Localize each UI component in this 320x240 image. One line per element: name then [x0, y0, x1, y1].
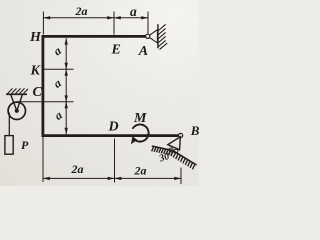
- wall hatching at A: [158, 24, 167, 49]
- moment arrowhead: [131, 136, 137, 144]
- top dimension extension line at A: [147, 12, 149, 34]
- roller 1 at B: [169, 148, 173, 152]
- svg-text:P: P: [21, 138, 29, 152]
- svg-text:2a: 2a: [75, 4, 88, 18]
- weight P box: [5, 136, 13, 155]
- tick at K level: [43, 68, 74, 70]
- pulley hub: [15, 109, 19, 113]
- pin B circle: [179, 133, 183, 137]
- pin A circle: [146, 34, 150, 38]
- ceiling bracket line (pulley support): [6, 93, 27, 95]
- svg-text:E: E: [111, 43, 121, 58]
- roller 2 at B: [174, 149, 178, 153]
- incline hatching: [152, 146, 195, 169]
- bottom-left extension (member continued): [42, 137, 44, 182]
- svg-text:H: H: [29, 30, 42, 45]
- tick / cable line at C level: [17, 101, 74, 103]
- pulley bracket struts: [11, 95, 17, 111]
- arrowheads bottom dimension: [43, 177, 181, 180]
- rocker triangle at B: [168, 137, 181, 150]
- left vertical member H-K-C-corner: [42, 35, 45, 137]
- svg-text:2a: 2a: [71, 162, 84, 176]
- svg-text:M: M: [133, 111, 147, 126]
- bottom dimension line: [43, 177, 181, 179]
- svg-text:a: a: [130, 4, 137, 19]
- inclined surface line at B: [152, 146, 197, 165]
- svg-text:D: D: [108, 120, 119, 135]
- top chord member H-E-A: [42, 35, 147, 38]
- inner vertical dimension line (a,a,a): [65, 38, 67, 134]
- arrowheads top dimension: [43, 16, 148, 19]
- arrowheads inner dimension: [65, 38, 68, 134]
- rope down to weight: [8, 113, 10, 136]
- svg-text:C: C: [33, 85, 43, 100]
- wall line at A: [157, 24, 159, 48]
- paper background: [0, 0, 199, 186]
- svg-text:2a: 2a: [134, 164, 147, 178]
- bottom chord member corner-D-B: [42, 134, 179, 137]
- top dimension extension line at H: [42, 12, 44, 35]
- top dimension extension line at E: [113, 12, 115, 35]
- svg-text:K: K: [30, 64, 42, 79]
- bottom dimension extension at D: [114, 139, 116, 183]
- pulley wheel: [8, 102, 25, 119]
- top dimension line: [43, 17, 148, 19]
- svg-text:A: A: [138, 44, 148, 59]
- bottom dimension extension at B: [180, 168, 182, 185]
- moment M circular arrow at D: [133, 124, 149, 141]
- support bracket at A: [150, 30, 158, 43]
- svg-text:B: B: [190, 123, 199, 138]
- ceiling hatching: [8, 88, 29, 93]
